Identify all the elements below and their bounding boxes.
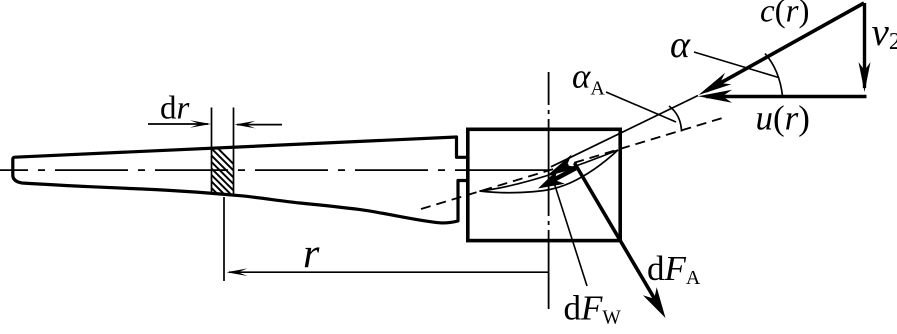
v2 <box>863 3 866 88</box>
alpha angle arc <box>765 54 783 97</box>
u(r) <box>706 95 867 99</box>
dFW drag arrow <box>547 168 577 184</box>
horizontal blade centerline (dash-dot) <box>0 169 468 171</box>
vertical element centerline (dash-dot) <box>548 72 550 309</box>
w relative velocity line <box>551 96 698 167</box>
alphaA angle arc <box>669 106 682 132</box>
alpha leader <box>694 52 779 78</box>
svg-text:c(r): c(r) <box>760 0 810 30</box>
svg-text:dr: dr <box>160 91 190 127</box>
dFA lift arrow <box>575 163 661 308</box>
blade element strip extension lines <box>211 108 213 194</box>
svg-text:r: r <box>303 232 320 278</box>
chord dashed line <box>421 118 724 210</box>
svg-text:α: α <box>670 24 691 66</box>
airfoil profile <box>480 150 619 193</box>
velocity triangle: c(r) <box>706 3 864 91</box>
r dimension <box>223 197 225 281</box>
dr dimension arrows <box>148 123 282 126</box>
svg-text:u(r): u(r) <box>756 99 810 138</box>
alphaA leader <box>606 92 676 122</box>
blade outline <box>13 137 468 223</box>
dFW leader <box>554 181 588 286</box>
box around blade element <box>468 129 620 240</box>
